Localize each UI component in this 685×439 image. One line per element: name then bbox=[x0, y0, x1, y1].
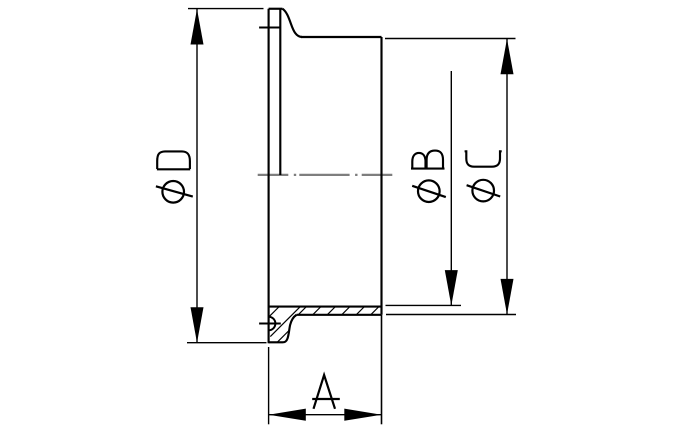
label ØB: letter B (rotated 90° CCW) bbox=[411, 151, 445, 169]
dimension B: extension line (bore) bbox=[386, 304, 462, 306]
part outline: top S-curve (flange to tube neck) bbox=[283, 9, 303, 37]
label ØD: diameter symbol slash bbox=[156, 186, 193, 196]
dimension B: vertical dimension line bbox=[450, 71, 452, 306]
label A: letter A bbox=[312, 375, 340, 409]
groove centerline top tick bbox=[259, 27, 281, 29]
part outline: flange face (left vertical edge) bbox=[268, 9, 270, 343]
label ØC: diameter symbol slash bbox=[467, 185, 501, 196]
dimension C: top extension line bbox=[385, 38, 516, 40]
dimension D: top extension line bbox=[188, 8, 264, 10]
dimension D: vertical dimension line bbox=[196, 9, 198, 343]
dimension C: bottom arrowhead bbox=[501, 279, 514, 315]
dimension A: horizontal dimension line bbox=[269, 414, 382, 416]
part outline: flange top edge bbox=[269, 8, 283, 10]
label ØC: diameter symbol circle bbox=[472, 180, 494, 202]
part outline: tube right edge bbox=[380, 37, 382, 315]
dimension C: bottom extension line bbox=[386, 314, 516, 316]
part outline: flange bottom edge bbox=[269, 341, 283, 343]
gasket groove semicircle (section) bbox=[269, 317, 276, 331]
dimension D: bottom extension line bbox=[187, 342, 267, 344]
dimension C: vertical dimension line bbox=[506, 39, 508, 315]
part outline: bottom S-curve (flange section) bbox=[283, 315, 297, 343]
dimension A: left arrowhead (points left) bbox=[269, 409, 306, 421]
dimension D: top arrowhead bbox=[191, 9, 204, 45]
centerline (horizontal axis, dash-dot gray) bbox=[258, 174, 393, 176]
dimension A: right extension line bbox=[381, 315, 383, 425]
groove centerline bottom tick bbox=[259, 323, 281, 325]
dimension A: left extension line (below flange) bbox=[268, 347, 270, 424]
dimension C: top arrowhead bbox=[501, 39, 514, 75]
dimension A: right arrowhead (points right) bbox=[344, 409, 381, 421]
part outline: tube top line bbox=[301, 36, 382, 38]
label ØB: diameter symbol circle bbox=[418, 180, 440, 202]
part outline: flange inner vertical line (top half) bbox=[279, 9, 281, 175]
dimension D: bottom arrowhead bbox=[191, 307, 204, 343]
label ØC: letter C (rotated 90° CCW) bbox=[465, 151, 502, 166]
hatch lines (section) bbox=[269, 307, 378, 342]
part outline: tube outer line (bottom section) bbox=[297, 314, 382, 316]
dimension B: bottom arrowhead bbox=[445, 270, 458, 306]
part outline: bore line (bottom section, inner wall) bbox=[269, 306, 382, 308]
label ØD: diameter symbol circle bbox=[162, 181, 184, 203]
label ØD: letter D (rotated 90° CCW) bbox=[157, 151, 190, 169]
label ØB: diameter symbol slash bbox=[412, 186, 446, 197]
